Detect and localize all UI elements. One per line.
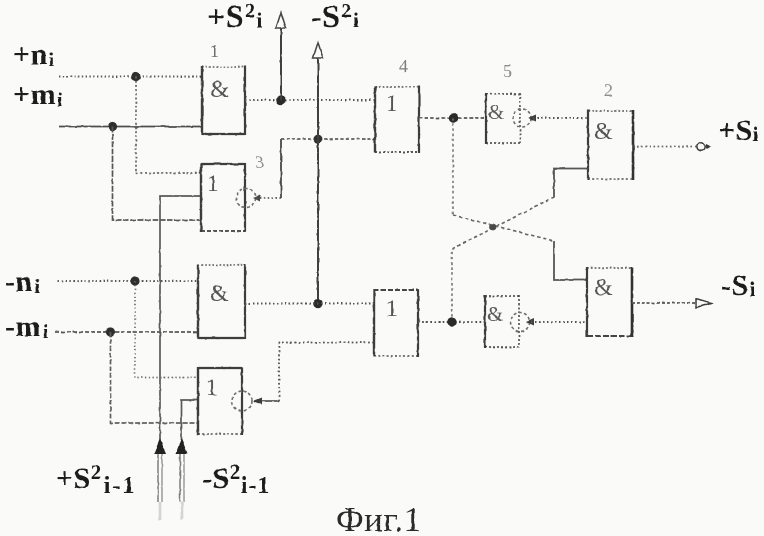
junction cross-couple tap lower — [447, 317, 457, 327]
svg-text:+Si: +Si — [718, 114, 759, 147]
cross blob — [490, 224, 497, 231]
wire cross-couple: upper tap down — [452, 118, 454, 215]
junction -S2i lower tap — [313, 299, 323, 309]
svg-text:4: 4 — [399, 56, 408, 76]
wire -S2i-1 vertical up to gate 6 middle input — [182, 400, 199, 446]
terminal +Si (small circle with arrow) — [697, 142, 705, 150]
gate 5 bubble arrow mark — [528, 115, 536, 122]
gate 3 inversion bubble (dashed circle) — [237, 189, 256, 208]
gate 7 inversion bubble (dashed circle) — [511, 313, 530, 332]
junction -mi branch — [106, 327, 115, 336]
junction -S2i tap — [314, 135, 323, 144]
wire +S2i-1 vertical up to gate 3 middle input — [160, 196, 201, 444]
svg-text:&: & — [594, 275, 613, 301]
wire -S2i vertical up to terminal — [317, 58, 319, 139]
svg-text:1: 1 — [210, 41, 219, 61]
svg-text:&: & — [210, 77, 229, 103]
wire cross-couple: down to right AND (-Si) input — [554, 241, 587, 280]
svg-text:2: 2 — [604, 80, 613, 100]
svg-text:Фиг.1: Фиг.1 — [336, 500, 422, 536]
svg-text:5: 5 — [503, 61, 512, 81]
terminal arrow +S2i (open, pointing up) — [276, 13, 286, 29]
svg-text:&: & — [594, 119, 613, 145]
junction +mi branch — [108, 122, 117, 131]
wire cross-couple: up to gate 2 lower input — [554, 169, 588, 198]
wire +ni branch down to gate 3 input — [136, 77, 201, 174]
wire gate 1 output to OR gate 4 input — [245, 99, 375, 101]
wire -mi branch down to gate 6 input — [111, 332, 199, 423]
wire gate 6 output up to lower OR gate input — [279, 343, 374, 402]
gate 2 (AND, element 2) box — [588, 110, 633, 180]
wire +mi horizontal into gate 1 — [59, 126, 202, 128]
wire gate 2 output (+Si) — [633, 146, 696, 148]
junction -ni branch — [130, 276, 139, 285]
wire +mi branch down to gate 3 input — [113, 127, 202, 221]
lower AND gate box — [198, 264, 245, 339]
gate 6 (lower OR-NOT) box — [198, 367, 242, 435]
terminal -Si (open arrow) — [696, 299, 711, 308]
gate 6 bubble feed wire with arrow into bubble — [254, 400, 279, 402]
wire gate 5 output to gate 2 input — [533, 117, 588, 119]
junction +ni branch — [131, 72, 140, 81]
wire gate 3 output to OR gate 4 lower input — [281, 138, 375, 140]
wire -mi horizontal into lower AND gate — [55, 331, 198, 333]
wire +S2i vertical up to terminal — [280, 28, 282, 100]
wire -S2i-1 fuzzy tail below arrow — [179, 454, 181, 502]
terminal arrow +S2i-1 (filled, pointing up) — [154, 438, 166, 454]
wire +ni horizontal into gate 1 — [59, 76, 202, 78]
junction cross-couple tap upper — [449, 113, 459, 123]
terminal arrow -S2i (open, pointing up) — [313, 43, 323, 59]
svg-text:&: & — [488, 100, 504, 124]
svg-text:3: 3 — [255, 152, 264, 172]
wire -ni branch down to gate 6 input — [135, 281, 198, 378]
gate 7 bubble arrow mark — [526, 319, 534, 326]
gate 5 inversion bubble (dashed circle) — [513, 109, 531, 127]
gate 3 bubble arrow mark — [253, 195, 260, 202]
svg-text:+mi: +mi — [13, 78, 63, 111]
wire cross diagonal A (down-right) — [453, 215, 554, 241]
wire lower OR output tap up — [451, 249, 453, 322]
wire cross diagonal B (up-right) — [452, 197, 554, 249]
svg-text:1: 1 — [386, 296, 398, 321]
gate 5 (AND with inhibit, element 5) box — [486, 93, 520, 144]
junction +S2i tap on gate 1 output — [276, 95, 286, 105]
wire -ni horizontal into lower AND gate — [58, 280, 198, 282]
gate 1 (AND, element 1) box — [202, 66, 245, 135]
wire gate 7 output to right AND input — [531, 321, 587, 323]
svg-text:1: 1 — [206, 375, 218, 400]
svg-text:1: 1 — [386, 91, 398, 116]
gate 6 inversion bubble (dashed circle) — [232, 391, 252, 411]
wire -S2i vertical down to lower AND output node — [317, 139, 319, 304]
terminal arrow -S2i-1 (filled, pointing up) — [176, 438, 188, 454]
wire right AND output (-Si) — [632, 302, 696, 304]
svg-text:1: 1 — [207, 171, 219, 196]
svg-text:&: & — [210, 281, 229, 307]
wire OR gate 4 output to gate 5 — [419, 117, 486, 119]
right AND (-Si) gate box — [587, 267, 632, 337]
lower OR gate box — [374, 289, 418, 357]
wire lower AND output to lower OR input — [245, 303, 374, 305]
wire +S2i-1 fuzzy tail below arrow — [157, 454, 159, 502]
svg-text:&: & — [487, 302, 503, 326]
gate 4 (OR, element 4) box — [375, 86, 419, 153]
wire lower OR output to gate 7 — [418, 321, 485, 323]
wire gate 3 output riser — [280, 139, 282, 198]
wire gate 3 output: bubble to corner — [256, 197, 281, 199]
gate 7 (lower AND with inhibit) box — [485, 295, 519, 348]
gate 3 (OR-NOT, element 3) box — [201, 163, 245, 232]
